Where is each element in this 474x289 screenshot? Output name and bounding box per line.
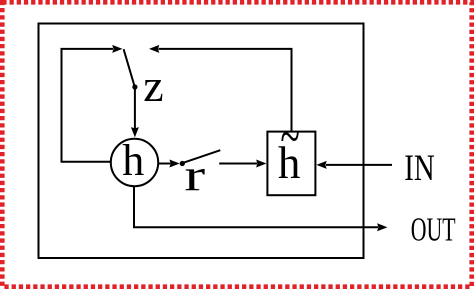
wire: switch r to h-tilde box bbox=[219, 163, 257, 165]
h-tilde tilde mark bbox=[280, 106, 299, 166]
svg-text:IN: IN bbox=[404, 147, 434, 188]
arrowhead OUT (right) bbox=[377, 223, 387, 231]
wire: candidate h-tilde feedback up and left to switch z bbox=[159, 49, 292, 132]
wire: node h down and right to OUT bbox=[134, 186, 378, 227]
svg-text:OUT: OUT bbox=[411, 211, 456, 248]
switch z blade bbox=[124, 49, 135, 87]
wire: switch z down to node h bbox=[134, 87, 136, 129]
arrowhead into switch r (right) bbox=[169, 160, 179, 168]
switch r blade bbox=[184, 150, 220, 162]
svg-text:h: h bbox=[122, 136, 144, 185]
svg-text:~: ~ bbox=[280, 106, 299, 166]
svg-text:z: z bbox=[143, 60, 163, 111]
arrowhead into node h (down) bbox=[131, 127, 139, 137]
arrowhead into switch z (right) bbox=[112, 45, 122, 53]
arrowhead toward switch z (left) bbox=[149, 45, 159, 53]
wire: h left feedback loop (up and right to switch z) bbox=[62, 49, 114, 162]
switch r pivot dot bbox=[180, 161, 185, 166]
node h circle bbox=[111, 139, 158, 186]
arrowhead into h-tilde box (right) bbox=[256, 160, 266, 168]
arrowhead into h-tilde box (left) bbox=[316, 161, 326, 169]
switch z pivot dot bbox=[132, 84, 137, 89]
outer black rectangle frame bbox=[39, 24, 364, 259]
h-tilde box bbox=[267, 132, 315, 196]
wire: node h to switch r bbox=[159, 163, 171, 165]
wire: IN to h-tilde box bbox=[326, 164, 392, 166]
